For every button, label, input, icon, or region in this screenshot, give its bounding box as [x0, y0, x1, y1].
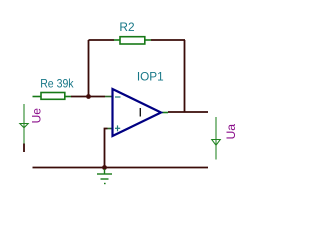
svg-text:Ua: Ua [224, 124, 238, 140]
svg-text:Re 39k: Re 39k [40, 77, 74, 91]
svg-text:R2: R2 [119, 20, 134, 34]
svg-text:IOP1: IOP1 [137, 69, 164, 83]
svg-text:Ue: Ue [30, 108, 44, 124]
